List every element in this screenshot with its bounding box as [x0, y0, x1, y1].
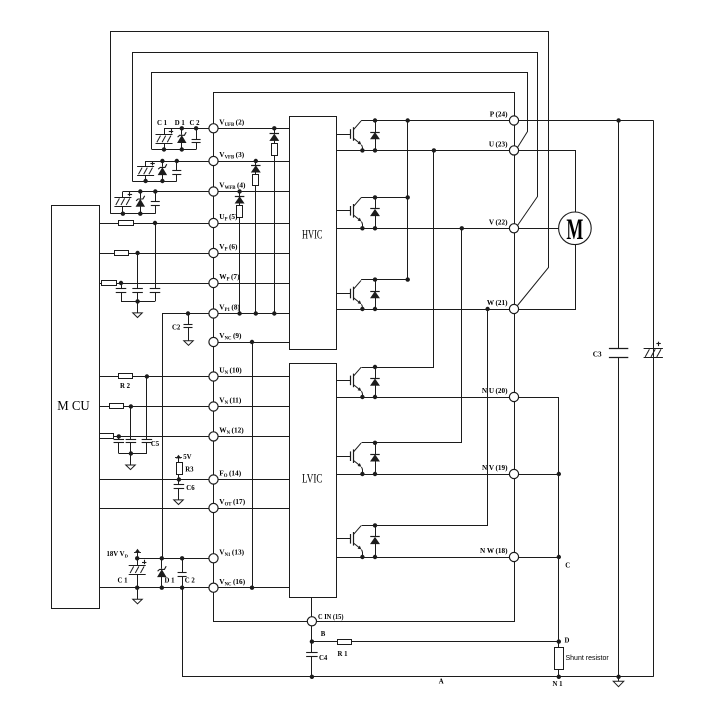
bootstrap diode chain V (diode + resistor to VP1) — [254, 159, 258, 163]
resistor R3 — [177, 463, 183, 475]
wire right pin column — [514, 121, 516, 558]
wire Q2 collector rail — [361, 197, 408, 199]
wire NW(18) line — [514, 557, 559, 559]
wire cap bank2 bottom rail — [119, 453, 147, 455]
svg-text:N W (18): N W (18) — [480, 547, 508, 555]
svg-text:W (21): W (21) — [487, 299, 508, 307]
transistor IGBT Q4 (U low side) — [350, 376, 352, 386]
svg-text:R 2: R 2 — [120, 383, 131, 390]
wire VWFB(4) line — [123, 191, 289, 193]
bootstrap diode chain W (diode + resistor to VP1) — [237, 189, 241, 193]
wire Q5 collector rail up to V emitter — [362, 229, 462, 443]
svg-text:VOT (17): VOT (17) — [219, 497, 245, 507]
wire UN(10) line — [99, 376, 289, 378]
junction dots bootstrap1 — [180, 126, 184, 130]
svg-text:C5: C5 — [151, 441, 160, 448]
svg-text:C3: C3 — [593, 350, 602, 358]
capacitor bank VP — [137, 253, 139, 289]
capacitor C5 bank UN — [146, 377, 148, 440]
freewheel diode Q6 — [375, 525, 377, 536]
svg-text:C6: C6 — [186, 485, 195, 492]
zener diode D1 (VUFB bootstrap) — [181, 128, 183, 134]
resistor on WP(7) line — [102, 281, 117, 286]
svg-text:HVIC: HVIC — [302, 227, 323, 242]
zener diode D1 (VVFB bootstrap) — [162, 161, 164, 167]
wire C IN (15) stub from LVIC — [311, 597, 313, 621]
svg-text:VP1 (8): VP1 (8) — [219, 303, 240, 313]
svg-text:C IN (15): C IN (15) — [318, 613, 344, 621]
wire bootstrap3 bottom rail — [110, 213, 155, 215]
motor M — [559, 212, 592, 245]
pin C IN (15) terminal — [307, 617, 316, 626]
capacitor bank VN — [130, 407, 132, 440]
resistor on WN(12) line — [100, 434, 114, 439]
capacitor C4 — [311, 642, 313, 653]
shunt resistor — [558, 642, 560, 648]
junction dots Q2 — [373, 195, 377, 199]
ground C6 — [178, 499, 180, 501]
wire CIN to node B — [311, 621, 313, 641]
wire HVIC gate W-high — [337, 293, 351, 295]
svg-text:UP (5): UP (5) — [219, 212, 238, 222]
svg-text:N V (19): N V (19) — [482, 464, 508, 472]
wire VNC(16) down to C IN (15) — [214, 588, 312, 622]
svg-text:WN (12): WN (12) — [219, 426, 244, 436]
wire line A corner up to electrolytic bus — [653, 120, 655, 677]
capacitor C6 — [178, 480, 180, 485]
wire FO(14) line — [99, 479, 289, 481]
resistor on VP(6) line — [115, 251, 129, 256]
node C — [557, 555, 561, 559]
capacitor C2 (VVFB bootstrap) — [176, 161, 178, 171]
svg-text:P (24): P (24) — [490, 111, 508, 119]
svg-text:R3: R3 — [185, 466, 194, 473]
ground cap bank2 — [130, 454, 132, 466]
svg-text:VN (11): VN (11) — [219, 396, 242, 406]
wire V(22) to motor — [514, 228, 559, 230]
wire LVIC gate V-low — [337, 456, 351, 458]
node N1 — [557, 675, 561, 679]
wire VNC(16) line / ground rail — [99, 587, 289, 589]
wire Q3 collector rail — [361, 279, 408, 281]
node B — [310, 639, 314, 643]
op-amp HVIC U1 — [290, 117, 337, 350]
junction dots bootstrap3 — [138, 189, 142, 193]
svg-text:D 1: D 1 — [165, 577, 176, 584]
transistor IGBT Q1 (U high side) — [350, 129, 352, 139]
op-amp LVIC U2 — [290, 364, 337, 598]
svg-text:VN1 (13): VN1 (13) — [219, 548, 244, 558]
svg-text:U (23): U (23) — [489, 140, 508, 148]
capacitor C1 (VUFB bootstrap electrolytic) — [164, 128, 166, 134]
capacitor C2 (VWFB bootstrap) — [155, 192, 157, 202]
junction dots Q1 — [373, 118, 377, 122]
transistor IGBT Q2 (V high side) — [350, 206, 352, 216]
svg-text:D 1: D 1 — [175, 120, 186, 127]
wire HVIC gate U-high — [337, 134, 351, 136]
wire VP1(8) line to 18V supply — [163, 314, 290, 559]
junction dots Q5 — [373, 441, 377, 445]
wire Q3 emitter rail to W(21) — [337, 309, 515, 311]
svg-text:FO (14): FO (14) — [219, 469, 241, 479]
wire U(23) to motor top — [515, 151, 576, 213]
svg-text:C 1: C 1 — [157, 120, 168, 127]
18V VD supply arrow — [137, 550, 139, 559]
wire NU(20) to shunt vertical — [515, 398, 559, 642]
resistor on VN(11) line — [110, 404, 124, 409]
capacitor C1 (18V electrolytic) — [137, 558, 139, 565]
node B wire to node D — [312, 641, 559, 643]
capacitor C3 bus — [618, 121, 620, 349]
junction dots Q3 — [373, 277, 377, 281]
freewheel diode Q3 — [375, 280, 377, 291]
wire Q6 emitter rail to NW(18) — [337, 557, 515, 559]
wire HVIC gate V-high — [337, 210, 351, 212]
svg-text:C 2: C 2 — [190, 120, 201, 127]
node D — [557, 639, 561, 643]
wire top loop VUFB(2) to P(24) — [214, 93, 515, 129]
MCU U-ctrl — [52, 206, 100, 609]
svg-text:C2: C2 — [172, 324, 181, 331]
svg-text:VP (6): VP (6) — [219, 242, 238, 252]
wire Q2 emitter rail to V(22) — [337, 228, 515, 230]
wire bootstrap1 bottom rail — [152, 149, 196, 151]
svg-text:A: A — [439, 679, 444, 686]
wire Q1 emitter rail to U(23) — [337, 150, 515, 152]
svg-text:N 1: N 1 — [553, 681, 564, 688]
capacitor bank WP — [121, 283, 123, 289]
wire VUFB(2) line — [164, 128, 289, 130]
wire VVFB(3) line — [146, 161, 289, 163]
wire VNC(9) to VNC(16) vertical — [252, 342, 254, 588]
wire VN1(13) line / 18V rail — [137, 558, 213, 560]
svg-text:C 2: C 2 — [185, 577, 196, 584]
capacitor bank WN — [118, 436, 120, 439]
svg-text:N U (20): N U (20) — [482, 387, 508, 395]
resistor on UP(5) line — [119, 221, 134, 226]
wire bootstrap2 bottom rail — [133, 181, 177, 183]
svg-text:D: D — [565, 638, 570, 645]
capacitor C2 (VUFB bootstrap) — [196, 128, 198, 139]
wire VN(11) line — [99, 406, 289, 408]
junction dot VNC(9) — [250, 340, 254, 344]
left pin terminals — [209, 124, 218, 133]
svg-text:5V: 5V — [183, 454, 191, 461]
junction dots 18V rails — [135, 556, 139, 560]
svg-text:WP (7): WP (7) — [219, 272, 240, 282]
wire top feedback loop U-phase (VUFB bootstrap to U(23)) — [152, 73, 528, 150]
wire UP(5) line — [99, 223, 289, 225]
wire VNC ground down to line A — [183, 588, 654, 677]
wire W(21) to motor bottom — [515, 245, 576, 310]
svg-text:V (22): V (22) — [489, 218, 508, 226]
wire top feedback loop V-phase (VVFB bootstrap to V(22)) — [133, 53, 538, 226]
capacitor C2 (VP1 filter) — [186, 311, 190, 315]
svg-text:VNC (9): VNC (9) — [219, 331, 242, 341]
transistor IGBT Q6 (W low side) — [350, 534, 352, 544]
wire HV collector bus — [407, 121, 409, 280]
svg-text:UN (10): UN (10) — [219, 366, 242, 376]
ground C2 filter — [188, 340, 190, 342]
wire Q4 collector rail up to U emitter — [362, 151, 434, 368]
zener diode D1 (18V) — [161, 558, 163, 569]
transistor IGBT Q3 (W high side) — [350, 289, 352, 299]
svg-text:Shunt resistor: Shunt resistor — [566, 655, 610, 662]
svg-text:C 1: C 1 — [118, 577, 129, 584]
ground cap bank1 — [137, 301, 139, 313]
wire Q5 emitter rail to NV(19) — [337, 474, 515, 476]
zener diode D1 (VWFB bootstrap) — [140, 192, 142, 199]
wire NV(19) line — [514, 474, 559, 476]
freewheel diode Q5 — [375, 443, 377, 454]
wire VOT(17) line — [99, 508, 289, 510]
ground 18V C1 — [137, 588, 139, 600]
resistor R1 — [338, 640, 352, 645]
wire P(24) line to DC bus — [514, 120, 653, 122]
freewheel diode Q1 — [375, 121, 377, 133]
wire cap bank1 bottom rail — [121, 301, 155, 303]
capacitor C2 (18V) — [182, 558, 184, 572]
wire WP(7) line — [99, 283, 289, 285]
ground symbol at C3 bus bottom — [618, 677, 620, 682]
resistor R2 on UN(10) line — [119, 374, 133, 379]
wire WN(12) line — [99, 436, 289, 438]
wire VP(6) line — [99, 253, 289, 255]
svg-text:R 1: R 1 — [338, 651, 349, 658]
svg-text:VNC (16): VNC (16) — [219, 577, 245, 587]
5V supply arrow — [178, 456, 180, 463]
wire VNC(9) line — [214, 342, 290, 344]
freewheel diode Q4 — [375, 367, 377, 378]
freewheel diode Q2 — [375, 197, 377, 208]
wire left pin column — [213, 128, 215, 587]
wire Q6 collector rail up to W emitter — [362, 310, 488, 526]
junction dots on VP1 line — [237, 311, 241, 315]
wire top feedback loop W-phase (VWFB bootstrap to W(21)) — [111, 32, 549, 306]
svg-text:C4: C4 — [319, 655, 328, 662]
svg-text:M CU: M CU — [57, 399, 89, 414]
bootstrap diode chain U (diode + resistor to VP1) — [272, 126, 276, 130]
capacitor C1 (VVFB bootstrap electrolytic) — [145, 161, 147, 167]
junction dots bootstrap2 — [160, 159, 164, 163]
svg-text:LVIC: LVIC — [302, 471, 323, 486]
svg-text:C: C — [565, 563, 570, 570]
wire Q4 emitter rail to NU(20) — [337, 397, 515, 399]
svg-text:B: B — [321, 631, 326, 638]
capacitor bank UP — [155, 223, 157, 289]
wire Q1 collector rail to P(24) — [361, 120, 514, 122]
right pin terminals — [509, 116, 518, 125]
wire LVIC gate W-low — [337, 538, 351, 540]
electrolytic capacitor DC bus — [644, 348, 663, 350]
junction dots Q6 — [373, 523, 377, 527]
transistor IGBT Q5 (V low side) — [350, 451, 352, 461]
junction dots Q4 — [373, 365, 377, 369]
svg-text:M: M — [566, 213, 583, 246]
capacitor C1 (VWFB bootstrap electrolytic) — [122, 192, 124, 198]
wire C IN (15) right and up to NW(18) column — [312, 558, 515, 622]
wire LVIC gate U-low — [337, 380, 351, 382]
junction dot NV(19) — [557, 472, 561, 476]
